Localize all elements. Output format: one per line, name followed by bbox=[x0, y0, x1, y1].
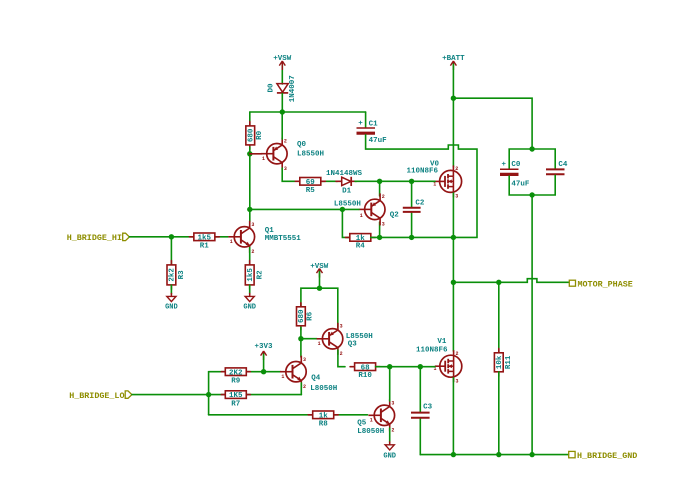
node VSW rail junction bbox=[280, 109, 285, 114]
capacitor C2 bbox=[403, 181, 425, 237]
node +BATT branch bbox=[451, 96, 456, 101]
svg-text:R11: R11 bbox=[505, 355, 513, 369]
wire R2 to GND bbox=[249, 285, 251, 294]
wire D0 to rail bbox=[281, 94, 283, 113]
svg-text:R6: R6 bbox=[307, 311, 315, 321]
mosfet V0 bbox=[407, 160, 462, 199]
transistor Q3 bbox=[317, 323, 373, 357]
wire Q1 emitter to R2 bbox=[249, 248, 251, 265]
svg-text:GND: GND bbox=[243, 304, 256, 312]
node MOTOR_PHASE at R11 bbox=[496, 280, 501, 285]
wire Q2 emitter up bbox=[379, 181, 381, 196]
svg-text:+BATT: +BATT bbox=[442, 55, 465, 63]
wire Q0 base pin bbox=[250, 153, 262, 155]
resistor R2 bbox=[245, 261, 264, 290]
resistor R3 bbox=[167, 261, 186, 290]
ground under R2 bbox=[243, 293, 256, 312]
wire Q3 emitter to gate row bbox=[338, 350, 345, 367]
wire Q2 collector down bbox=[379, 222, 381, 237]
svg-text:Q2: Q2 bbox=[390, 212, 400, 220]
wire VSW2 rail bbox=[301, 288, 338, 327]
svg-text:R9: R9 bbox=[231, 377, 241, 385]
wire rail to R0 bbox=[249, 112, 251, 126]
label MOTOR_PHASE bbox=[569, 279, 632, 289]
svg-text:2: 2 bbox=[382, 194, 385, 200]
svg-text:D0: D0 bbox=[268, 83, 276, 93]
svg-text:+3V3: +3V3 bbox=[254, 343, 273, 351]
node gate row Q5 bbox=[387, 364, 392, 369]
svg-text:1k5: 1k5 bbox=[247, 268, 255, 282]
svg-text:R1: R1 bbox=[200, 242, 210, 250]
capacitor C3 bbox=[411, 367, 433, 455]
node HI junction R3 bbox=[169, 234, 174, 239]
resistor R6 bbox=[297, 303, 315, 330]
wire V0 source down to MOTOR_PHASE bbox=[452, 193, 454, 282]
svg-text:2: 2 bbox=[456, 351, 459, 357]
svg-text:+: + bbox=[502, 161, 507, 169]
svg-text:3: 3 bbox=[391, 401, 394, 407]
svg-text:C0: C0 bbox=[511, 161, 521, 169]
node MOTOR_PHASE at V0 bbox=[451, 280, 456, 285]
wire C1 bottom to phase node with hop bbox=[366, 135, 477, 238]
svg-text:C1: C1 bbox=[369, 121, 379, 129]
resistor R11 bbox=[494, 349, 512, 377]
power +VSW bbox=[273, 55, 292, 70]
wire Q5 emitter down bbox=[389, 428, 391, 443]
node R9 junction bbox=[261, 369, 266, 374]
node C0C4 bottom bbox=[529, 192, 534, 197]
wire V1 source to GND rail bbox=[452, 378, 454, 455]
power +VSW lower bbox=[310, 263, 329, 277]
transistor Q5 bbox=[357, 399, 394, 436]
svg-text:+VSW: +VSW bbox=[273, 55, 292, 63]
wire R3 lead bbox=[170, 237, 172, 265]
wire H_BRIDGE_LO row bbox=[132, 394, 301, 396]
resistor R5 bbox=[295, 178, 325, 196]
power +BATT bbox=[442, 55, 465, 70]
power +3V3 bbox=[254, 343, 273, 360]
wire V0 source column V1 drain bbox=[452, 282, 454, 351]
wire Q4 emitter down bbox=[300, 383, 302, 395]
node source row Q2 bbox=[377, 235, 382, 240]
svg-text:3: 3 bbox=[303, 357, 306, 363]
svg-text:1N4007: 1N4007 bbox=[289, 75, 297, 102]
svg-text:47uF: 47uF bbox=[511, 180, 530, 188]
svg-text:110N8F6: 110N8F6 bbox=[416, 346, 448, 354]
svg-text:1: 1 bbox=[318, 341, 321, 347]
node Q3 base junction bbox=[298, 336, 303, 341]
svg-text:R7: R7 bbox=[231, 400, 240, 408]
svg-text:L8550H: L8550H bbox=[334, 201, 361, 209]
wire base rail Q1 to Q2 bbox=[250, 208, 359, 210]
resistor R8 bbox=[308, 411, 338, 428]
svg-text:R8: R8 bbox=[319, 420, 329, 428]
node source row V0 bbox=[451, 235, 456, 240]
svg-text:R0: R0 bbox=[256, 130, 264, 140]
resistor R0 bbox=[246, 122, 264, 150]
transistor Q1 bbox=[228, 221, 301, 255]
svg-text:2: 2 bbox=[391, 428, 394, 434]
wire R3 to GND bbox=[170, 285, 172, 294]
wire Q0 emitter to R5 row bbox=[282, 168, 295, 181]
wire Q3 base branch bbox=[301, 338, 317, 340]
wire right column down to GND rail bbox=[531, 195, 533, 455]
node GND rail V1 bbox=[451, 452, 456, 457]
svg-text:Q3: Q3 bbox=[348, 341, 358, 349]
wire R0 down to Q1 collector bbox=[249, 147, 251, 222]
wire C0C4 top rail bbox=[509, 149, 555, 169]
svg-text:H_BRIDGE_LO: H_BRIDGE_LO bbox=[69, 391, 124, 401]
svg-text:1: 1 bbox=[262, 156, 265, 162]
node VSW2 junction bbox=[317, 286, 322, 291]
svg-text:1: 1 bbox=[433, 181, 436, 187]
label H_BRIDGE_HI bbox=[67, 233, 130, 243]
svg-text:1K5: 1K5 bbox=[229, 392, 243, 400]
svg-text:+: + bbox=[358, 120, 363, 128]
capacitor C0 bbox=[500, 161, 530, 189]
svg-text:MOTOR_PHASE: MOTOR_PHASE bbox=[578, 279, 633, 289]
svg-text:2: 2 bbox=[251, 249, 254, 255]
diode D1 bbox=[326, 170, 363, 195]
wire +VSW stem to D0 bbox=[281, 64, 283, 84]
wire VSW rail bbox=[250, 111, 366, 113]
svg-text:1k5: 1k5 bbox=[198, 234, 212, 242]
label H_BRIDGE_LO bbox=[69, 391, 132, 401]
svg-text:R4: R4 bbox=[356, 243, 366, 251]
svg-text:2: 2 bbox=[303, 384, 306, 390]
capacitor C1 bbox=[357, 120, 388, 145]
svg-text:Q5: Q5 bbox=[357, 419, 367, 427]
svg-text:3: 3 bbox=[456, 378, 459, 384]
node base rail R4 branch bbox=[340, 207, 345, 212]
mosfet V1 bbox=[416, 338, 462, 385]
svg-text:1N4148WS: 1N4148WS bbox=[326, 170, 363, 178]
wire +BATT down to V0 drain bbox=[452, 64, 454, 167]
node LO junction bbox=[206, 392, 211, 397]
resistor R4 bbox=[346, 234, 376, 251]
wire Q5 collector up bbox=[389, 367, 391, 401]
wire H_BRIDGE_HI to Q1 base bbox=[130, 236, 229, 238]
svg-text:C3: C3 bbox=[423, 404, 433, 412]
wire R11 bottom to GND rail bbox=[498, 372, 500, 455]
wire R10 to V1 gate bbox=[376, 366, 435, 368]
node gate row at Q2 bbox=[377, 179, 382, 184]
wire R5 to D1 bbox=[321, 180, 338, 182]
svg-text:1: 1 bbox=[360, 213, 363, 219]
node gate row C3 bbox=[418, 364, 423, 369]
wire R6 to Q4 collector bbox=[300, 327, 302, 357]
resistor R9 bbox=[221, 368, 250, 386]
diode D0 bbox=[268, 75, 297, 102]
label H_BRIDGE_GND bbox=[569, 451, 638, 461]
svg-text:1: 1 bbox=[370, 418, 373, 424]
svg-text:V1: V1 bbox=[437, 338, 447, 346]
node GND rail R11 bbox=[496, 452, 501, 457]
node base rail left bbox=[247, 207, 252, 212]
node GND rail right column bbox=[529, 452, 534, 457]
transistor Q0 bbox=[261, 138, 324, 172]
svg-text:R5: R5 bbox=[306, 187, 316, 195]
svg-text:3: 3 bbox=[251, 222, 254, 228]
svg-text:2k2: 2k2 bbox=[169, 268, 177, 282]
svg-text:3: 3 bbox=[455, 194, 458, 200]
svg-text:2K2: 2K2 bbox=[229, 369, 243, 377]
svg-text:L8050H: L8050H bbox=[310, 385, 337, 393]
svg-text:2: 2 bbox=[455, 166, 458, 172]
ground under R3 bbox=[165, 293, 178, 312]
svg-text:D1: D1 bbox=[342, 187, 352, 195]
wire +BATT branch to C0C4 bbox=[453, 98, 532, 149]
wire R8 row bbox=[209, 414, 368, 416]
svg-text:C2: C2 bbox=[415, 199, 425, 207]
svg-text:10k: 10k bbox=[496, 355, 504, 369]
wire R4 to source row bbox=[371, 236, 454, 238]
wire R11 top bbox=[498, 282, 500, 353]
svg-text:Q1: Q1 bbox=[265, 227, 275, 235]
svg-text:H_BRIDGE_HI: H_BRIDGE_HI bbox=[67, 233, 122, 243]
ground under Q5 bbox=[383, 441, 396, 460]
wire R4 branch down bbox=[342, 209, 350, 237]
svg-text:110N8F6: 110N8F6 bbox=[407, 168, 439, 176]
svg-text:3: 3 bbox=[382, 222, 385, 228]
wire C0C4 bottom rail bbox=[509, 175, 555, 195]
svg-text:GND: GND bbox=[165, 304, 178, 312]
svg-text:+VSW: +VSW bbox=[310, 263, 329, 271]
svg-text:H_BRIDGE_GND: H_BRIDGE_GND bbox=[577, 451, 637, 461]
wire Q0 collector to rail bbox=[281, 112, 283, 139]
wire +3V3 stem bbox=[263, 354, 265, 372]
svg-text:2: 2 bbox=[284, 138, 287, 144]
svg-text:L8550H: L8550H bbox=[297, 151, 324, 159]
svg-text:1: 1 bbox=[230, 239, 233, 245]
svg-text:680: 680 bbox=[298, 309, 306, 323]
svg-text:2: 2 bbox=[340, 351, 343, 357]
svg-text:3: 3 bbox=[284, 166, 287, 172]
svg-text:1: 1 bbox=[281, 374, 284, 380]
wire D1 to V0 gate bbox=[355, 180, 435, 182]
svg-text:680: 680 bbox=[247, 128, 255, 142]
svg-text:Q0: Q0 bbox=[297, 141, 307, 149]
svg-text:3: 3 bbox=[340, 324, 343, 330]
wire H_BRIDGE_GND rail bbox=[420, 454, 568, 456]
svg-text:GND: GND bbox=[383, 452, 396, 460]
svg-text:MMBT5551: MMBT5551 bbox=[265, 235, 302, 243]
svg-text:C4: C4 bbox=[558, 161, 568, 169]
node gate row at C2 bbox=[409, 179, 414, 184]
wire LO vertical bbox=[208, 372, 210, 415]
wire C1 top lead bbox=[365, 112, 367, 127]
svg-text:Q4: Q4 bbox=[311, 374, 321, 382]
node source row C2 bbox=[409, 235, 414, 240]
resistor R10 bbox=[350, 363, 380, 380]
svg-text:47uF: 47uF bbox=[369, 137, 388, 145]
svg-text:R10: R10 bbox=[358, 372, 372, 380]
node Q0 base junction bbox=[247, 151, 252, 156]
svg-text:1k: 1k bbox=[319, 412, 329, 420]
wire R9 row bbox=[209, 371, 281, 373]
resistor R7 bbox=[221, 391, 250, 409]
transistor Q4 bbox=[280, 356, 337, 394]
capacitor C4 bbox=[546, 161, 568, 174]
node C0C4 top bbox=[529, 146, 534, 151]
wire MOTOR_PHASE rail with hop bbox=[453, 279, 569, 283]
svg-text:69: 69 bbox=[306, 179, 316, 187]
wire +VSW2 stem bbox=[319, 272, 321, 289]
svg-text:R3: R3 bbox=[178, 270, 186, 280]
transistor Q2 bbox=[334, 193, 399, 227]
resistor R1 bbox=[189, 233, 219, 250]
svg-text:68: 68 bbox=[361, 364, 371, 372]
svg-text:L8050H: L8050H bbox=[357, 428, 384, 436]
svg-text:R2: R2 bbox=[256, 270, 264, 280]
